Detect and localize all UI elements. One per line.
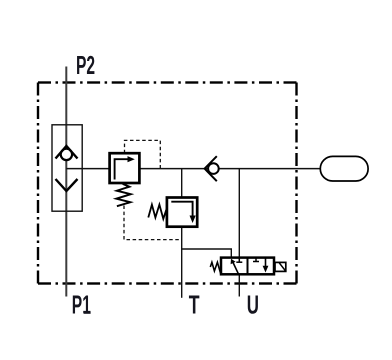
wire main horizontal line (66, 168, 320, 170)
V2 internal arrow (171, 202, 192, 217)
wire solenoid valve bottom to port U (238, 274, 240, 296)
relief valve V2 body (167, 198, 197, 227)
V3 left cell blocked port stub (238, 258, 240, 263)
V1 spring (116, 184, 130, 206)
enclosure border (dash-dot manifold outline) top edge (38, 81, 51, 83)
solenoid valve V3 body (221, 258, 274, 275)
svg-text:P1: P1 (72, 290, 91, 319)
enclosure border bottom edge (38, 282, 51, 284)
enclosure border left edge (37, 83, 39, 96)
V3 solenoid coil (275, 262, 286, 271)
wire T-line branch to solenoid valve pilot port (182, 249, 232, 258)
check valve CV2 seat (205, 156, 217, 181)
wire main line down to solenoid valve (U branch upper) (238, 169, 240, 258)
outlet plug (stadium shape) (320, 156, 368, 181)
drain line (dashed) from V1 spring to T-line (124, 206, 182, 240)
svg-text:P2: P2 (76, 51, 95, 80)
check valve CV1 chevron (56, 179, 78, 191)
V2 spring (148, 205, 167, 219)
V3 left cell diagonal arrow (233, 262, 239, 274)
check valve CV2 on main line (ball) (208, 163, 219, 174)
pressure reducing valve V1 body (110, 153, 140, 183)
wire P2-P1 vertical line (65, 67, 67, 297)
svg-text:U: U (247, 290, 259, 320)
wire main line to relief valve V2 (181, 169, 183, 198)
V3 cell divider (247, 258, 249, 275)
V3 right cell down arrow (265, 258, 267, 267)
V3 right cell blocked port stub (255, 258, 257, 262)
check valve CV1 seat (56, 146, 78, 159)
check valve CV1 ball (61, 149, 72, 160)
enclosure border right edge (295, 83, 297, 96)
wire V2 bottom to port T (181, 227, 183, 298)
svg-text:T: T (189, 290, 200, 319)
pilot line (dashed) over reducing valve V1 (125, 140, 161, 168)
check valve CV1 envelope (52, 125, 82, 211)
V1 internal arrow (115, 159, 129, 179)
V3 return spring (210, 262, 221, 271)
